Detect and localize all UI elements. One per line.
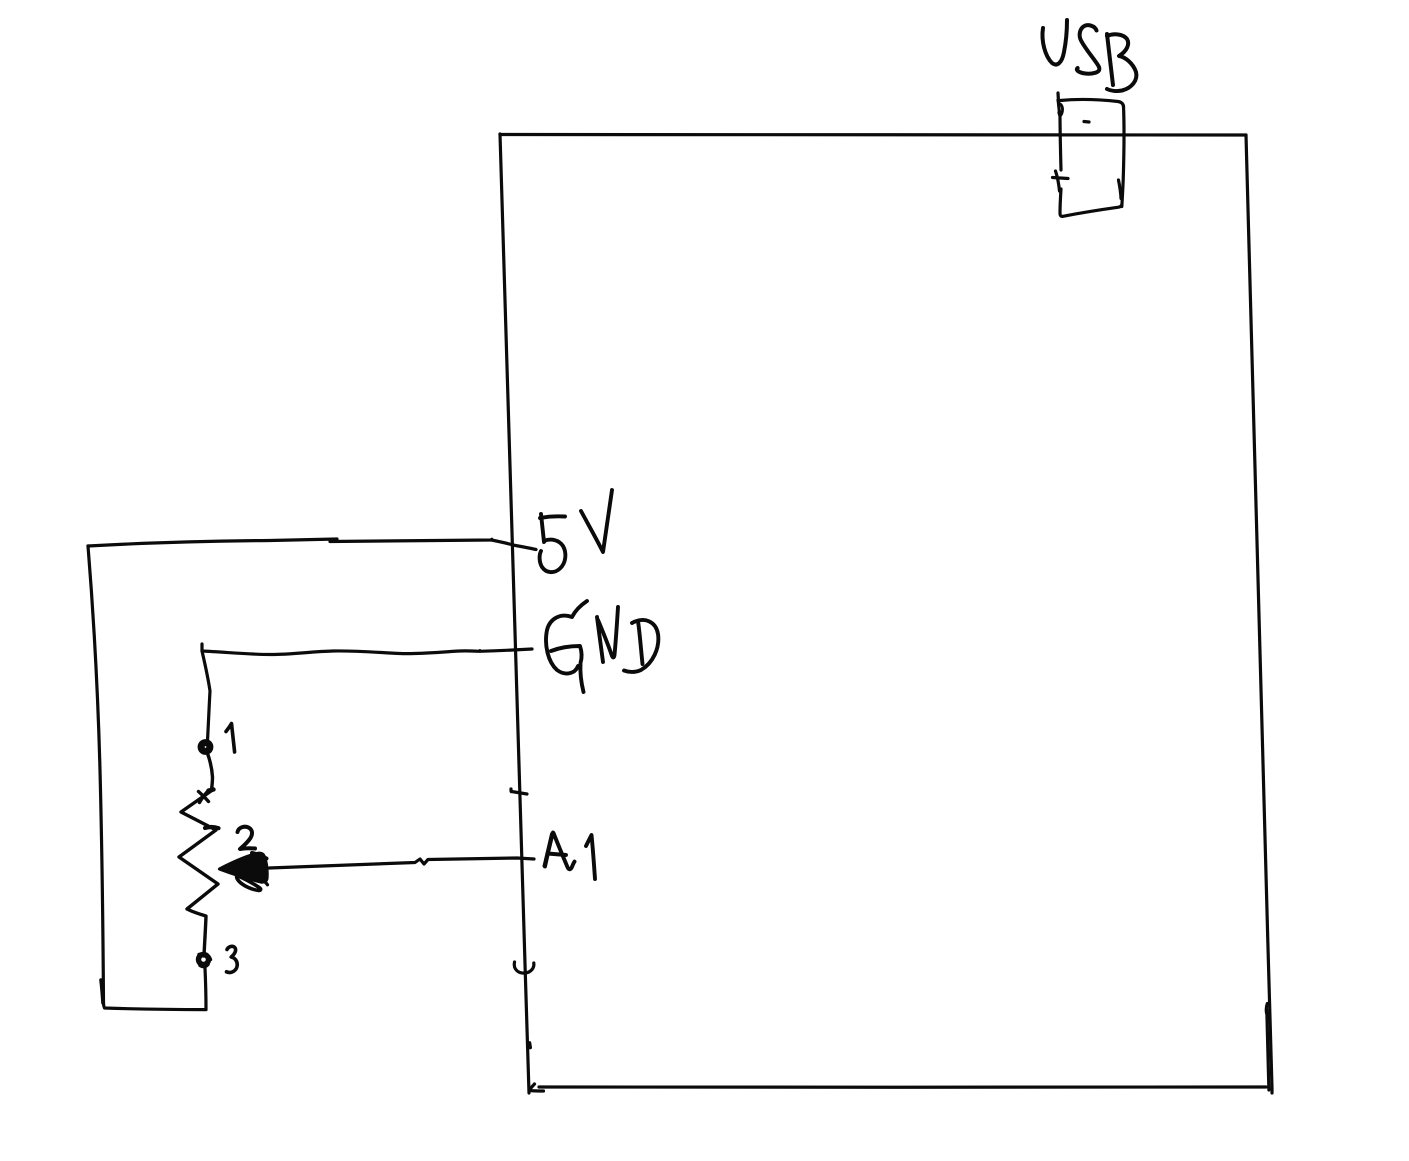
label 2 — [238, 827, 256, 849]
pin 1 dot — [201, 742, 211, 752]
pin 3 dot — [199, 954, 211, 967]
wire GND — [202, 649, 532, 655]
USB connector polarity dash — [1084, 120, 1089, 124]
board outline (Arduino) — [500, 134, 1272, 1093]
label 1 — [226, 724, 235, 753]
board left edge curl mark — [514, 962, 534, 973]
wiper arrowhead (filled) — [220, 853, 268, 890]
zigzag vertex tick — [205, 827, 219, 828]
label 5V — [540, 490, 612, 572]
potentiometer R1 zigzag — [179, 752, 218, 956]
potentiometer left loop wire: 5V down the left side and along the bottom to pin 3 — [88, 546, 206, 1010]
board right edge doubled stroke near bottom — [1266, 1004, 1269, 1091]
board left edge tick mark — [511, 789, 527, 794]
label USB — [1042, 20, 1136, 91]
GND stub down to pin 1 — [202, 644, 210, 741]
label 3 — [227, 946, 238, 972]
label A1 — [545, 833, 596, 880]
board bottom-left corner tick — [530, 1043, 544, 1091]
USB connector — [1053, 93, 1125, 216]
wire 5V — [88, 539, 536, 550]
label GND — [546, 601, 658, 692]
wire A1 with arrow to wiper — [269, 858, 534, 868]
